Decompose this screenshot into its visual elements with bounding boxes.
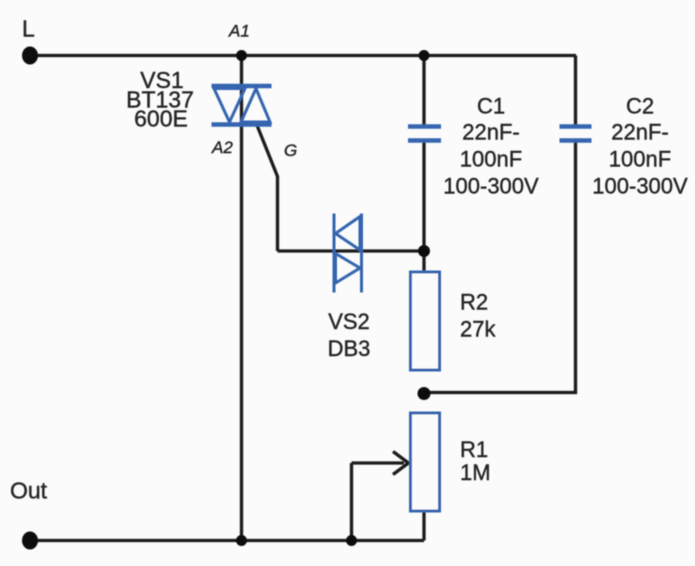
svg-text:600E: 600E bbox=[134, 106, 188, 132]
node B junction (R2 / R1 / right wire) bbox=[418, 387, 431, 400]
triac VS1 bbox=[212, 86, 272, 125]
wire top (L to C2 branch) bbox=[30, 54, 576, 57]
wire gate to diac to node A bbox=[278, 249, 425, 252]
wire C1 branch lower to R2 bbox=[422, 141, 425, 273]
diac VS2 bbox=[334, 214, 362, 293]
junction top of C1 bbox=[419, 50, 430, 61]
label VS2 value bbox=[328, 309, 371, 361]
svg-text:G: G bbox=[284, 141, 297, 160]
svg-text:DB3: DB3 bbox=[328, 336, 371, 361]
svg-text:27k: 27k bbox=[460, 317, 496, 342]
svg-text:100-300V: 100-300V bbox=[443, 174, 539, 199]
label C2 value bbox=[592, 94, 688, 199]
svg-text:22nF-: 22nF- bbox=[611, 120, 668, 145]
wire triac vertical (A1 to bottom rail) bbox=[240, 56, 243, 541]
terminal Out bbox=[22, 532, 38, 550]
resistor R2 bbox=[411, 272, 440, 370]
svg-text:L: L bbox=[22, 16, 35, 42]
svg-text:VS2: VS2 bbox=[328, 309, 370, 334]
label R1 value bbox=[460, 437, 491, 485]
wire C2 branch upper bbox=[574, 56, 577, 127]
svg-text:100nF: 100nF bbox=[609, 147, 671, 172]
svg-text:A1: A1 bbox=[228, 22, 250, 41]
label R2 value bbox=[460, 290, 496, 342]
wiper arrow of R1 bbox=[352, 452, 409, 475]
terminal L bbox=[22, 47, 38, 65]
wire R1 bottom bbox=[422, 511, 425, 541]
wire right side down from C2 to node B bbox=[424, 141, 576, 393]
label VS1 value bbox=[126, 67, 194, 132]
svg-text:100nF: 100nF bbox=[460, 147, 522, 172]
label C1 value bbox=[443, 94, 539, 199]
resistor R1 potentiometer body bbox=[411, 413, 440, 511]
svg-text:22nF-: 22nF- bbox=[462, 120, 519, 145]
node A junction (diac / C1 / R2) bbox=[418, 245, 430, 257]
junction bottom wiper bbox=[346, 535, 357, 546]
capacitor C1 bbox=[408, 127, 441, 141]
svg-text:Out: Out bbox=[10, 478, 48, 504]
junction bottom triac bbox=[236, 535, 247, 546]
svg-text:R2: R2 bbox=[460, 290, 488, 315]
node A1 junction bbox=[236, 50, 247, 61]
svg-text:C2: C2 bbox=[626, 94, 654, 119]
wire bottom rail (Out) bbox=[30, 539, 424, 542]
capacitor C2 bbox=[560, 127, 592, 141]
wire C1 branch upper bbox=[422, 56, 425, 127]
svg-text:R1: R1 bbox=[460, 437, 488, 462]
svg-text:1M: 1M bbox=[460, 460, 491, 485]
wire wiper arm vertical bbox=[350, 463, 353, 541]
wire gate from triac bbox=[257, 124, 278, 251]
svg-text:A2: A2 bbox=[211, 138, 233, 157]
svg-text:100-300V: 100-300V bbox=[592, 174, 688, 199]
svg-text:C1: C1 bbox=[477, 94, 505, 119]
